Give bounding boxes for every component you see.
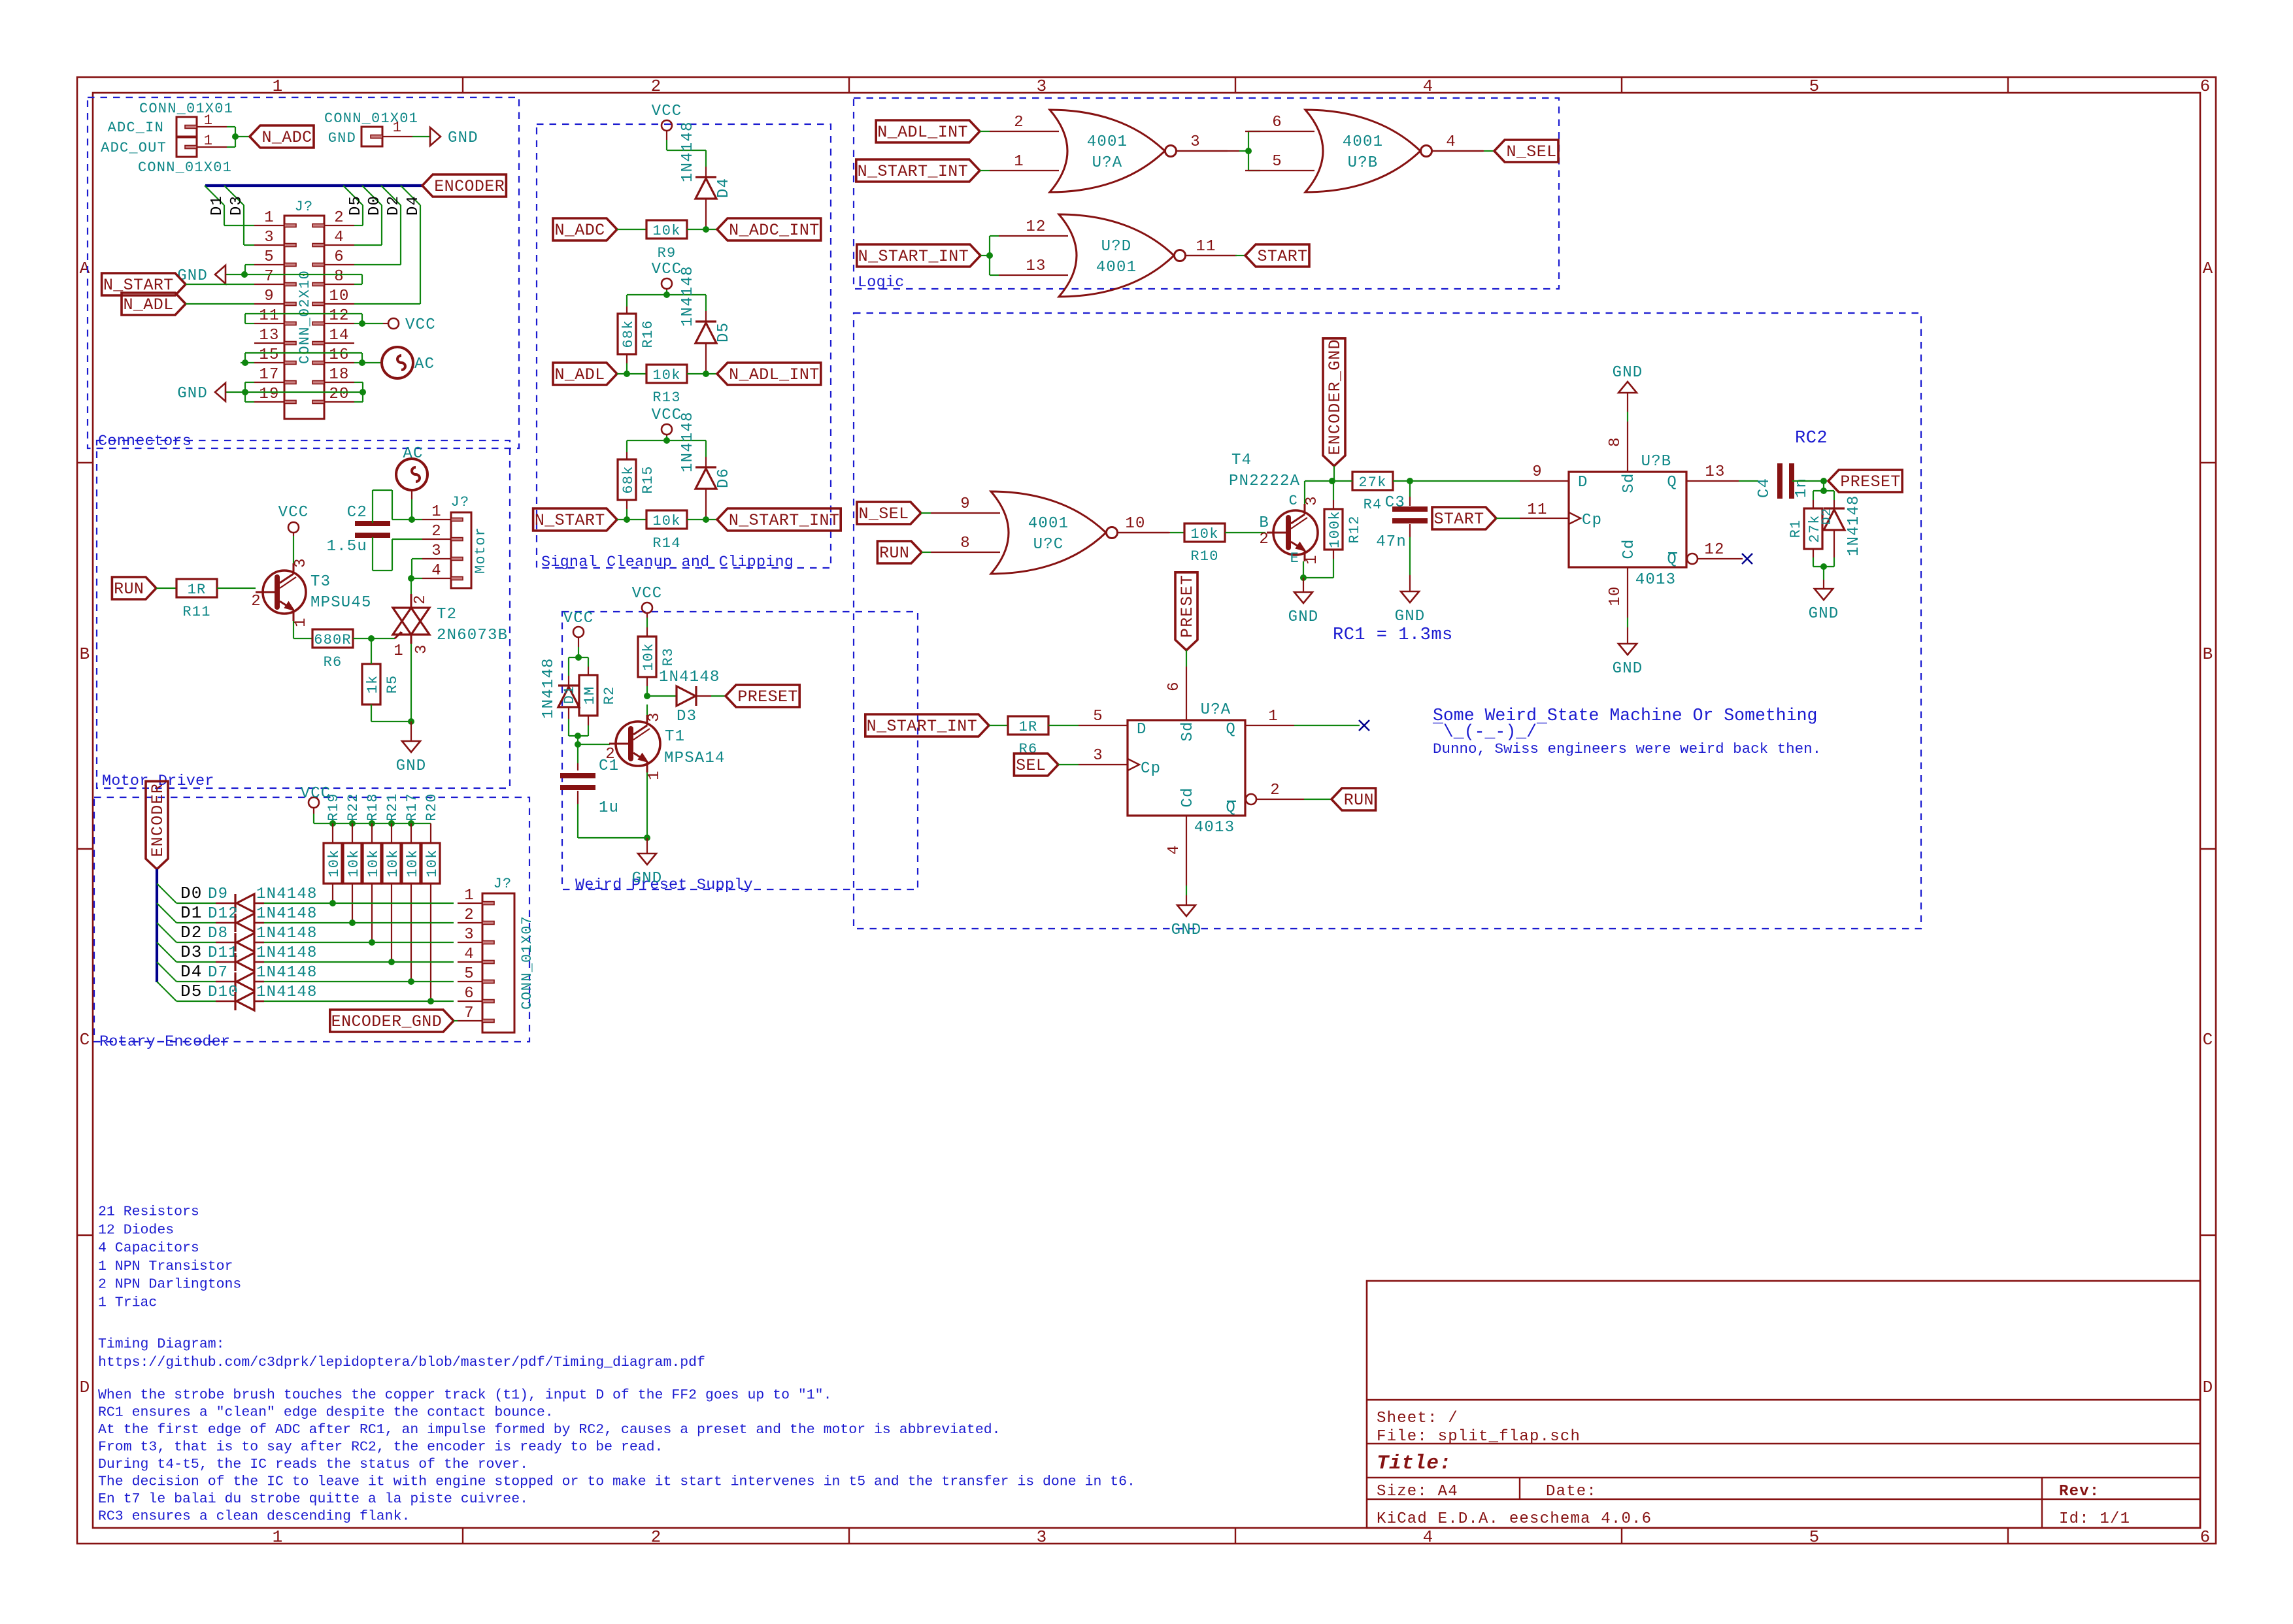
svg-text:N_ADL: N_ADL xyxy=(554,365,605,384)
transistor T1 MPSA14 xyxy=(616,721,660,766)
svg-text:GND: GND xyxy=(1171,921,1202,939)
svg-text:D: D xyxy=(1137,721,1147,738)
svg-text:RUN: RUN xyxy=(1344,791,1374,810)
wire row D4 xyxy=(176,981,216,982)
wire split R1 D2 xyxy=(1813,490,1834,491)
diode D6 1N4148 xyxy=(695,466,716,468)
svg-text:20: 20 xyxy=(329,386,349,403)
svg-text:Rotary Encoder: Rotary Encoder xyxy=(99,1033,230,1051)
wire D4 to connector xyxy=(264,981,454,982)
section box Signal Cleanup and Clipping xyxy=(537,124,831,568)
svg-text:VCC: VCC xyxy=(563,610,594,627)
wire pin11 loop xyxy=(245,323,254,324)
svg-text:U?D: U?D xyxy=(1101,238,1132,256)
wire N_START pin7 xyxy=(186,284,254,285)
global label N_ADC_INT xyxy=(717,218,821,240)
capacitor C1 1u xyxy=(560,773,595,778)
wire to U?B pin6 xyxy=(1248,131,1249,171)
svg-text:R16: R16 xyxy=(640,320,656,348)
junction D5 xyxy=(703,371,709,377)
global label START state xyxy=(1432,507,1496,529)
svg-text:CONN_01X01: CONN_01X01 xyxy=(324,110,418,127)
wire D1 to connector xyxy=(264,922,454,923)
wire AC to pin16 xyxy=(362,362,382,363)
svg-text:D3: D3 xyxy=(180,942,203,962)
svg-text:12: 12 xyxy=(1704,541,1724,559)
wire R6 to U?A D xyxy=(1048,725,1079,726)
power symbol GND motor xyxy=(402,741,420,752)
svg-text:RUN: RUN xyxy=(114,580,144,599)
wire D3 to pin3 xyxy=(243,205,244,245)
wire R5 to GND xyxy=(371,704,372,721)
resistor R5 1k xyxy=(362,664,380,704)
svg-text:4: 4 xyxy=(1423,76,1434,96)
wire VCC over R9 xyxy=(667,150,706,151)
junction preset out xyxy=(644,693,650,699)
svg-text:1R: 1R xyxy=(1019,719,1038,735)
bus ENCODER xyxy=(205,184,422,187)
wire VCC to loop xyxy=(578,647,579,657)
svg-text:10k: 10k xyxy=(385,849,401,877)
junction R6 R5 xyxy=(368,635,375,642)
svg-text:N_START_INT: N_START_INT xyxy=(858,162,968,181)
capacitor C4 1n xyxy=(1777,463,1783,499)
wire to FF D xyxy=(1410,480,1520,482)
wire D4 anode xyxy=(705,199,707,229)
wire junction to R4 xyxy=(1332,480,1352,482)
junction VCC rail R19 xyxy=(329,820,336,827)
svg-text:Sheet: /: Sheet: / xyxy=(1377,1410,1458,1427)
global label ENCODER_GND rotary xyxy=(330,1010,454,1032)
svg-text:R17: R17 xyxy=(404,793,420,821)
wire junction to GND xyxy=(410,721,412,741)
wire row D3 xyxy=(176,961,216,963)
svg-text:1: 1 xyxy=(264,209,275,227)
svg-text:C3: C3 xyxy=(1385,494,1405,512)
svg-text:1: 1 xyxy=(1268,708,1279,725)
global label N_START_INT xyxy=(717,508,841,531)
triac T2 2N6073B xyxy=(393,608,429,635)
power symbol GND preset xyxy=(638,853,656,865)
power symbol VCC R9 xyxy=(661,120,672,131)
junction motor pin1 xyxy=(409,516,415,523)
svg-text:¯\_(-_-)_/¯: ¯\_(-_-)_/¯ xyxy=(1432,722,1547,742)
svg-text:C: C xyxy=(80,1030,91,1050)
svg-text:T4: T4 xyxy=(1231,452,1252,469)
svg-text:10k: 10k xyxy=(641,642,657,671)
wire VCC split R13 xyxy=(627,294,706,295)
diode D3 1N4148 xyxy=(677,686,695,706)
svg-text:Sd: Sd xyxy=(1620,472,1638,493)
svg-text:Title:: Title: xyxy=(1377,1452,1452,1475)
wire T2 to GND junction xyxy=(410,644,412,721)
junction GND net xyxy=(241,271,248,278)
junction left R14 xyxy=(624,516,630,523)
svg-text:1N4148: 1N4148 xyxy=(679,265,697,327)
power symbol GND T4 xyxy=(1294,592,1313,603)
junction VCC rail R22 xyxy=(349,820,356,827)
wire to R16 xyxy=(626,295,628,307)
svg-text:D2: D2 xyxy=(385,195,403,216)
wire U?D out to START xyxy=(1186,255,1235,256)
junction PRESET xyxy=(1820,478,1827,484)
svg-text:1M: 1M xyxy=(582,686,598,705)
connector J? CONN_01X07 xyxy=(482,893,514,1033)
svg-text:File: split_flap.sch: File: split_flap.sch xyxy=(1377,1428,1581,1446)
bus entry D3 xyxy=(157,942,176,962)
resistor R15 68k xyxy=(618,459,636,500)
svg-text:4: 4 xyxy=(334,229,344,246)
global label ENCODER_GND state vertical xyxy=(1323,339,1345,466)
diode D10 1N4148 xyxy=(234,992,236,1010)
wire R21 pins xyxy=(391,823,392,843)
svg-text:3: 3 xyxy=(292,557,310,568)
svg-text:Q: Q xyxy=(1667,551,1677,569)
resistor R16 68k xyxy=(618,314,636,354)
junction ADC net xyxy=(232,133,239,140)
junction preset loop bottom xyxy=(575,733,581,739)
junction U?D inputs xyxy=(986,252,993,259)
wire PRESET to Sd xyxy=(1186,650,1187,667)
svg-text:6: 6 xyxy=(2200,1527,2211,1547)
junction base node xyxy=(575,741,581,748)
svg-text:1N4148: 1N4148 xyxy=(679,121,697,182)
resistor R18 10k xyxy=(363,843,381,884)
svg-text:13: 13 xyxy=(1026,257,1046,275)
junction GND 19 right xyxy=(360,389,366,395)
diode D12 1N4148 xyxy=(234,914,236,932)
wire GND pin xyxy=(412,136,430,137)
power symbol VCC R14 xyxy=(661,424,672,435)
svg-text:R22: R22 xyxy=(345,793,361,821)
wire T4 emitter xyxy=(1303,561,1304,578)
svg-text:6: 6 xyxy=(1272,114,1282,131)
svg-text:B: B xyxy=(1259,514,1269,532)
svg-text:10k: 10k xyxy=(346,849,362,877)
svg-text:19: 19 xyxy=(259,386,279,403)
wire C3 down xyxy=(1409,481,1411,497)
svg-text:En t7 le balai du strobe quitt: En t7 le balai du strobe quitte a la pis… xyxy=(98,1491,528,1507)
power symbol VCC preset right xyxy=(642,603,652,613)
svg-text:R4: R4 xyxy=(1364,497,1382,513)
svg-text:PRESET: PRESET xyxy=(1840,472,1900,491)
bus entry D0 xyxy=(157,884,176,903)
capacitor C2 1.5u xyxy=(355,521,390,526)
wire GND net row7 xyxy=(226,274,362,275)
wire loop bottom xyxy=(569,735,588,737)
svg-text:D5: D5 xyxy=(347,195,365,216)
global label SEL xyxy=(1014,754,1058,776)
svg-text:Timing Diagram:: Timing Diagram: xyxy=(98,1336,225,1352)
wire N_ADL to R13 xyxy=(617,373,646,374)
wire pin17 loop xyxy=(245,382,254,383)
svg-text:6: 6 xyxy=(464,985,475,1003)
junction VCC rail R17 xyxy=(408,820,414,827)
svg-text:ENCODER: ENCODER xyxy=(148,783,167,857)
junction VCC rail R18 xyxy=(369,820,375,827)
wire junction to D3 xyxy=(647,695,677,697)
global label N_SEL state xyxy=(857,502,921,524)
wire to D1 xyxy=(568,657,569,676)
svg-text:PN2222A: PN2222A xyxy=(1229,472,1300,490)
flip-flop U?B 4013 xyxy=(1569,472,1686,567)
global label RUN motor xyxy=(112,577,156,599)
svg-text:10k: 10k xyxy=(652,367,680,384)
svg-text:2: 2 xyxy=(1014,114,1024,131)
wire pin3 to pin4 net xyxy=(412,558,422,559)
svg-text:68k: 68k xyxy=(620,320,637,348)
svg-text:When the strobe brush touches: When the strobe brush touches the copper… xyxy=(98,1387,831,1403)
bus entry D1 xyxy=(205,186,224,205)
bus entry D5 xyxy=(343,186,363,205)
svg-text:1: 1 xyxy=(204,112,213,129)
wire D0 to pin4 xyxy=(381,205,382,245)
svg-text:START: START xyxy=(1433,510,1484,529)
wire T1 collector xyxy=(646,704,648,715)
svg-text:B: B xyxy=(80,644,91,664)
svg-text:KiCad E.D.A. eeschema 4.0.6: KiCad E.D.A. eeschema 4.0.6 xyxy=(1377,1510,1652,1528)
connector J? Motor CONN_01X04 xyxy=(451,512,471,588)
svg-text:PRESET: PRESET xyxy=(737,688,797,706)
resistor R10 10k xyxy=(1184,523,1225,542)
svg-text:9: 9 xyxy=(960,495,971,513)
svg-text:D9: D9 xyxy=(208,886,228,903)
wire row D0 xyxy=(176,903,216,904)
svg-text:RC3 ensures a clean descending: RC3 ensures a clean descending flank. xyxy=(98,1509,410,1525)
junction RC2 bottom xyxy=(1820,563,1827,570)
bus entry D5 xyxy=(157,982,176,1001)
svg-text:2: 2 xyxy=(605,746,616,763)
svg-text:B: B xyxy=(2203,644,2214,664)
power symbol GND RC2 xyxy=(1815,589,1833,600)
svg-text:D12: D12 xyxy=(208,905,239,923)
svg-text:2: 2 xyxy=(412,594,429,605)
wire ADC pins to N_ADC xyxy=(227,126,235,127)
svg-text:7: 7 xyxy=(264,268,275,286)
U?B Qbar bubble xyxy=(1687,554,1698,564)
resistor R22 10k xyxy=(343,843,361,884)
svg-text:U?A: U?A xyxy=(1092,154,1123,172)
wire to GND xyxy=(646,838,648,853)
global label PRESET state xyxy=(1828,470,1902,492)
wire U?B out to N_SEL xyxy=(1433,150,1484,152)
svg-text:N_SEL: N_SEL xyxy=(858,505,909,523)
svg-text:AC: AC xyxy=(403,445,423,463)
svg-text:12: 12 xyxy=(1026,218,1046,236)
svg-text:D1: D1 xyxy=(209,195,226,216)
junction left R13 xyxy=(624,371,630,377)
junction D5 pullup xyxy=(427,998,434,1004)
svg-text:Connectors: Connectors xyxy=(98,433,192,450)
wire to diode D6 xyxy=(705,440,707,457)
capacitor C3 47n xyxy=(1392,506,1428,512)
svg-text:10k: 10k xyxy=(652,223,680,239)
global label PRESET supply xyxy=(726,685,799,707)
wire N_ADL pin9 xyxy=(186,303,254,305)
junction D2 pullup xyxy=(369,939,375,946)
svg-text:Rev:: Rev: xyxy=(2059,1483,2100,1500)
junction encoder gnd node xyxy=(1329,478,1335,484)
svg-text:CONN_02X10: CONN_02X10 xyxy=(297,270,313,364)
wire ENCODER_GND pin7 xyxy=(453,1020,454,1021)
diode D7 1N4148 xyxy=(234,972,236,991)
svg-text:3: 3 xyxy=(413,644,431,654)
wire U?C out to R10 xyxy=(1118,532,1170,533)
svg-text:14: 14 xyxy=(329,327,349,344)
svg-text:16: 16 xyxy=(329,346,349,364)
svg-text:1N4148: 1N4148 xyxy=(540,657,558,719)
svg-text:11: 11 xyxy=(259,307,279,325)
global label N_ADL_INT logic xyxy=(876,120,980,142)
global label ENCODER xyxy=(422,174,506,197)
wire ENCODER_GND down xyxy=(1333,466,1335,481)
global label N_START_INT state xyxy=(865,714,989,737)
svg-text:2N6073B: 2N6073B xyxy=(437,627,508,644)
svg-text:3: 3 xyxy=(264,229,275,246)
global label N_START_INT 2 xyxy=(857,244,980,267)
power symbol GND U?B Cd xyxy=(1618,644,1637,655)
svg-text:3: 3 xyxy=(1303,495,1321,506)
svg-text:ADC_OUT: ADC_OUT xyxy=(101,140,167,156)
svg-text:U?A: U?A xyxy=(1201,701,1231,719)
svg-text:CONN_01X01: CONN_01X01 xyxy=(139,101,233,117)
svg-text:GND: GND xyxy=(177,267,208,285)
svg-text:1N4148: 1N4148 xyxy=(256,925,318,942)
svg-text:5: 5 xyxy=(1093,708,1103,725)
svg-text:D3: D3 xyxy=(677,708,697,725)
wire VCC rail xyxy=(313,814,314,823)
svg-text:10k: 10k xyxy=(1190,526,1218,542)
svg-text:Q: Q xyxy=(1226,721,1236,738)
global label N_ADL xyxy=(553,363,617,385)
wire R6 to gate junction xyxy=(353,638,395,639)
svg-text:R10: R10 xyxy=(1190,548,1218,565)
svg-text:6: 6 xyxy=(334,248,344,266)
wire C2 bottom loop xyxy=(372,537,373,571)
wire pin19 xyxy=(245,401,254,403)
section box Logic xyxy=(854,98,1559,289)
svg-text:At the first edge of ADC after: At the first edge of ADC after RC1, an i… xyxy=(98,1422,1001,1438)
wire R20 pins xyxy=(430,823,431,843)
wire VCC to pin12 xyxy=(362,323,383,324)
resistor R13 10k xyxy=(646,365,687,383)
wire R22 pins xyxy=(352,823,353,843)
svg-text:12: 12 xyxy=(329,307,349,325)
svg-text:3: 3 xyxy=(1037,1527,1048,1547)
wire C4 to PRESET xyxy=(1792,480,1824,482)
svg-text:N_START: N_START xyxy=(535,511,605,530)
wire D2 to connector xyxy=(264,942,454,943)
svg-text:R21: R21 xyxy=(384,793,401,821)
U?B Q out wire xyxy=(1686,480,1739,482)
svg-text:GND: GND xyxy=(448,129,478,147)
wire down to RC2 network xyxy=(1823,481,1824,491)
power symbol GND pins 5-8 xyxy=(215,265,226,284)
global label RUN state xyxy=(877,541,922,563)
wire R11 to T3 base xyxy=(217,588,256,589)
svg-text:GND: GND xyxy=(396,757,427,775)
svg-text:1: 1 xyxy=(393,642,404,660)
power symbol VCC rotary xyxy=(309,797,319,808)
global label N_START xyxy=(533,508,617,531)
svg-text:D4: D4 xyxy=(405,195,422,216)
wire N_SEL to U?C xyxy=(921,512,931,514)
wire R16 to net xyxy=(626,354,628,363)
U?A Q wire xyxy=(1245,725,1294,726)
wire D4 to pin10 xyxy=(420,205,421,304)
svg-text:D0: D0 xyxy=(180,884,203,903)
wire pin5 to GND net xyxy=(245,264,254,265)
svg-text:3: 3 xyxy=(1093,747,1103,765)
junction T4 emitter xyxy=(1300,574,1307,581)
svg-text:T2: T2 xyxy=(437,606,457,623)
svg-text:R11: R11 xyxy=(182,604,210,620)
svg-text:D8: D8 xyxy=(208,925,228,942)
svg-text:R14: R14 xyxy=(652,535,680,552)
svg-text:N_ADC_INT: N_ADC_INT xyxy=(729,221,820,240)
svg-text:10: 10 xyxy=(1607,586,1624,606)
svg-text:START: START xyxy=(1257,247,1307,266)
bus entry D0 xyxy=(362,186,382,205)
section box Weird Preset Supply xyxy=(562,612,918,889)
svg-text:ADC_IN: ADC_IN xyxy=(108,120,164,136)
svg-text:1: 1 xyxy=(1303,554,1321,565)
svg-text:11: 11 xyxy=(1527,501,1547,519)
junction U?B inputs xyxy=(1245,148,1252,154)
svg-text:5: 5 xyxy=(464,965,475,983)
global label N_ADC xyxy=(553,218,617,240)
svg-text:The decision of the IC to leav: The decision of the IC to leave it with … xyxy=(98,1474,1135,1490)
svg-text:ENCODER_GND: ENCODER_GND xyxy=(331,1012,442,1031)
AC source connector section xyxy=(382,347,413,378)
svg-text:4001: 4001 xyxy=(1096,259,1137,276)
wire R4 to C3 junction xyxy=(1393,480,1410,482)
svg-text:GND: GND xyxy=(1809,605,1839,623)
svg-text:SEL: SEL xyxy=(1016,756,1046,775)
global label N_START xyxy=(102,273,186,295)
svg-text:Cd: Cd xyxy=(1179,787,1197,807)
svg-text:1 NPN Transistor: 1 NPN Transistor xyxy=(98,1259,233,1274)
svg-text:D4: D4 xyxy=(180,962,203,982)
bus entry D4 xyxy=(157,962,176,982)
svg-text:C4: C4 xyxy=(1756,478,1773,498)
wire pin1 xyxy=(392,519,422,520)
svg-text:Cp: Cp xyxy=(1582,512,1602,529)
NOR gate U?B 4001 xyxy=(1305,110,1420,192)
resistor R6 680R xyxy=(312,629,353,648)
AC source motor xyxy=(396,459,427,490)
diode D8 1N4148 xyxy=(234,933,236,952)
resistor R12 100k xyxy=(1324,509,1343,550)
svg-text:8: 8 xyxy=(960,535,971,552)
power symbol VCC T3 xyxy=(288,522,299,533)
power symbol GND pins 17-20 xyxy=(215,383,226,401)
wire loop top xyxy=(569,657,588,658)
svg-text:1: 1 xyxy=(1014,153,1024,171)
wire R17 pins xyxy=(410,823,412,843)
svg-text:A: A xyxy=(80,259,91,278)
svg-text:RC2: RC2 xyxy=(1795,429,1828,448)
svg-text:MPSA14: MPSA14 xyxy=(664,750,726,767)
svg-text:During t4-t5, the IC reads the: During t4-t5, the IC reads the status of… xyxy=(98,1457,528,1472)
svg-text:R5: R5 xyxy=(384,675,401,694)
svg-text:1N4148: 1N4148 xyxy=(256,964,318,982)
junction pin16 xyxy=(359,359,365,366)
svg-text:10: 10 xyxy=(1125,515,1145,533)
svg-text:10k: 10k xyxy=(652,513,680,529)
U?B Qbar wire xyxy=(1698,558,1743,559)
svg-text:1: 1 xyxy=(292,617,310,627)
